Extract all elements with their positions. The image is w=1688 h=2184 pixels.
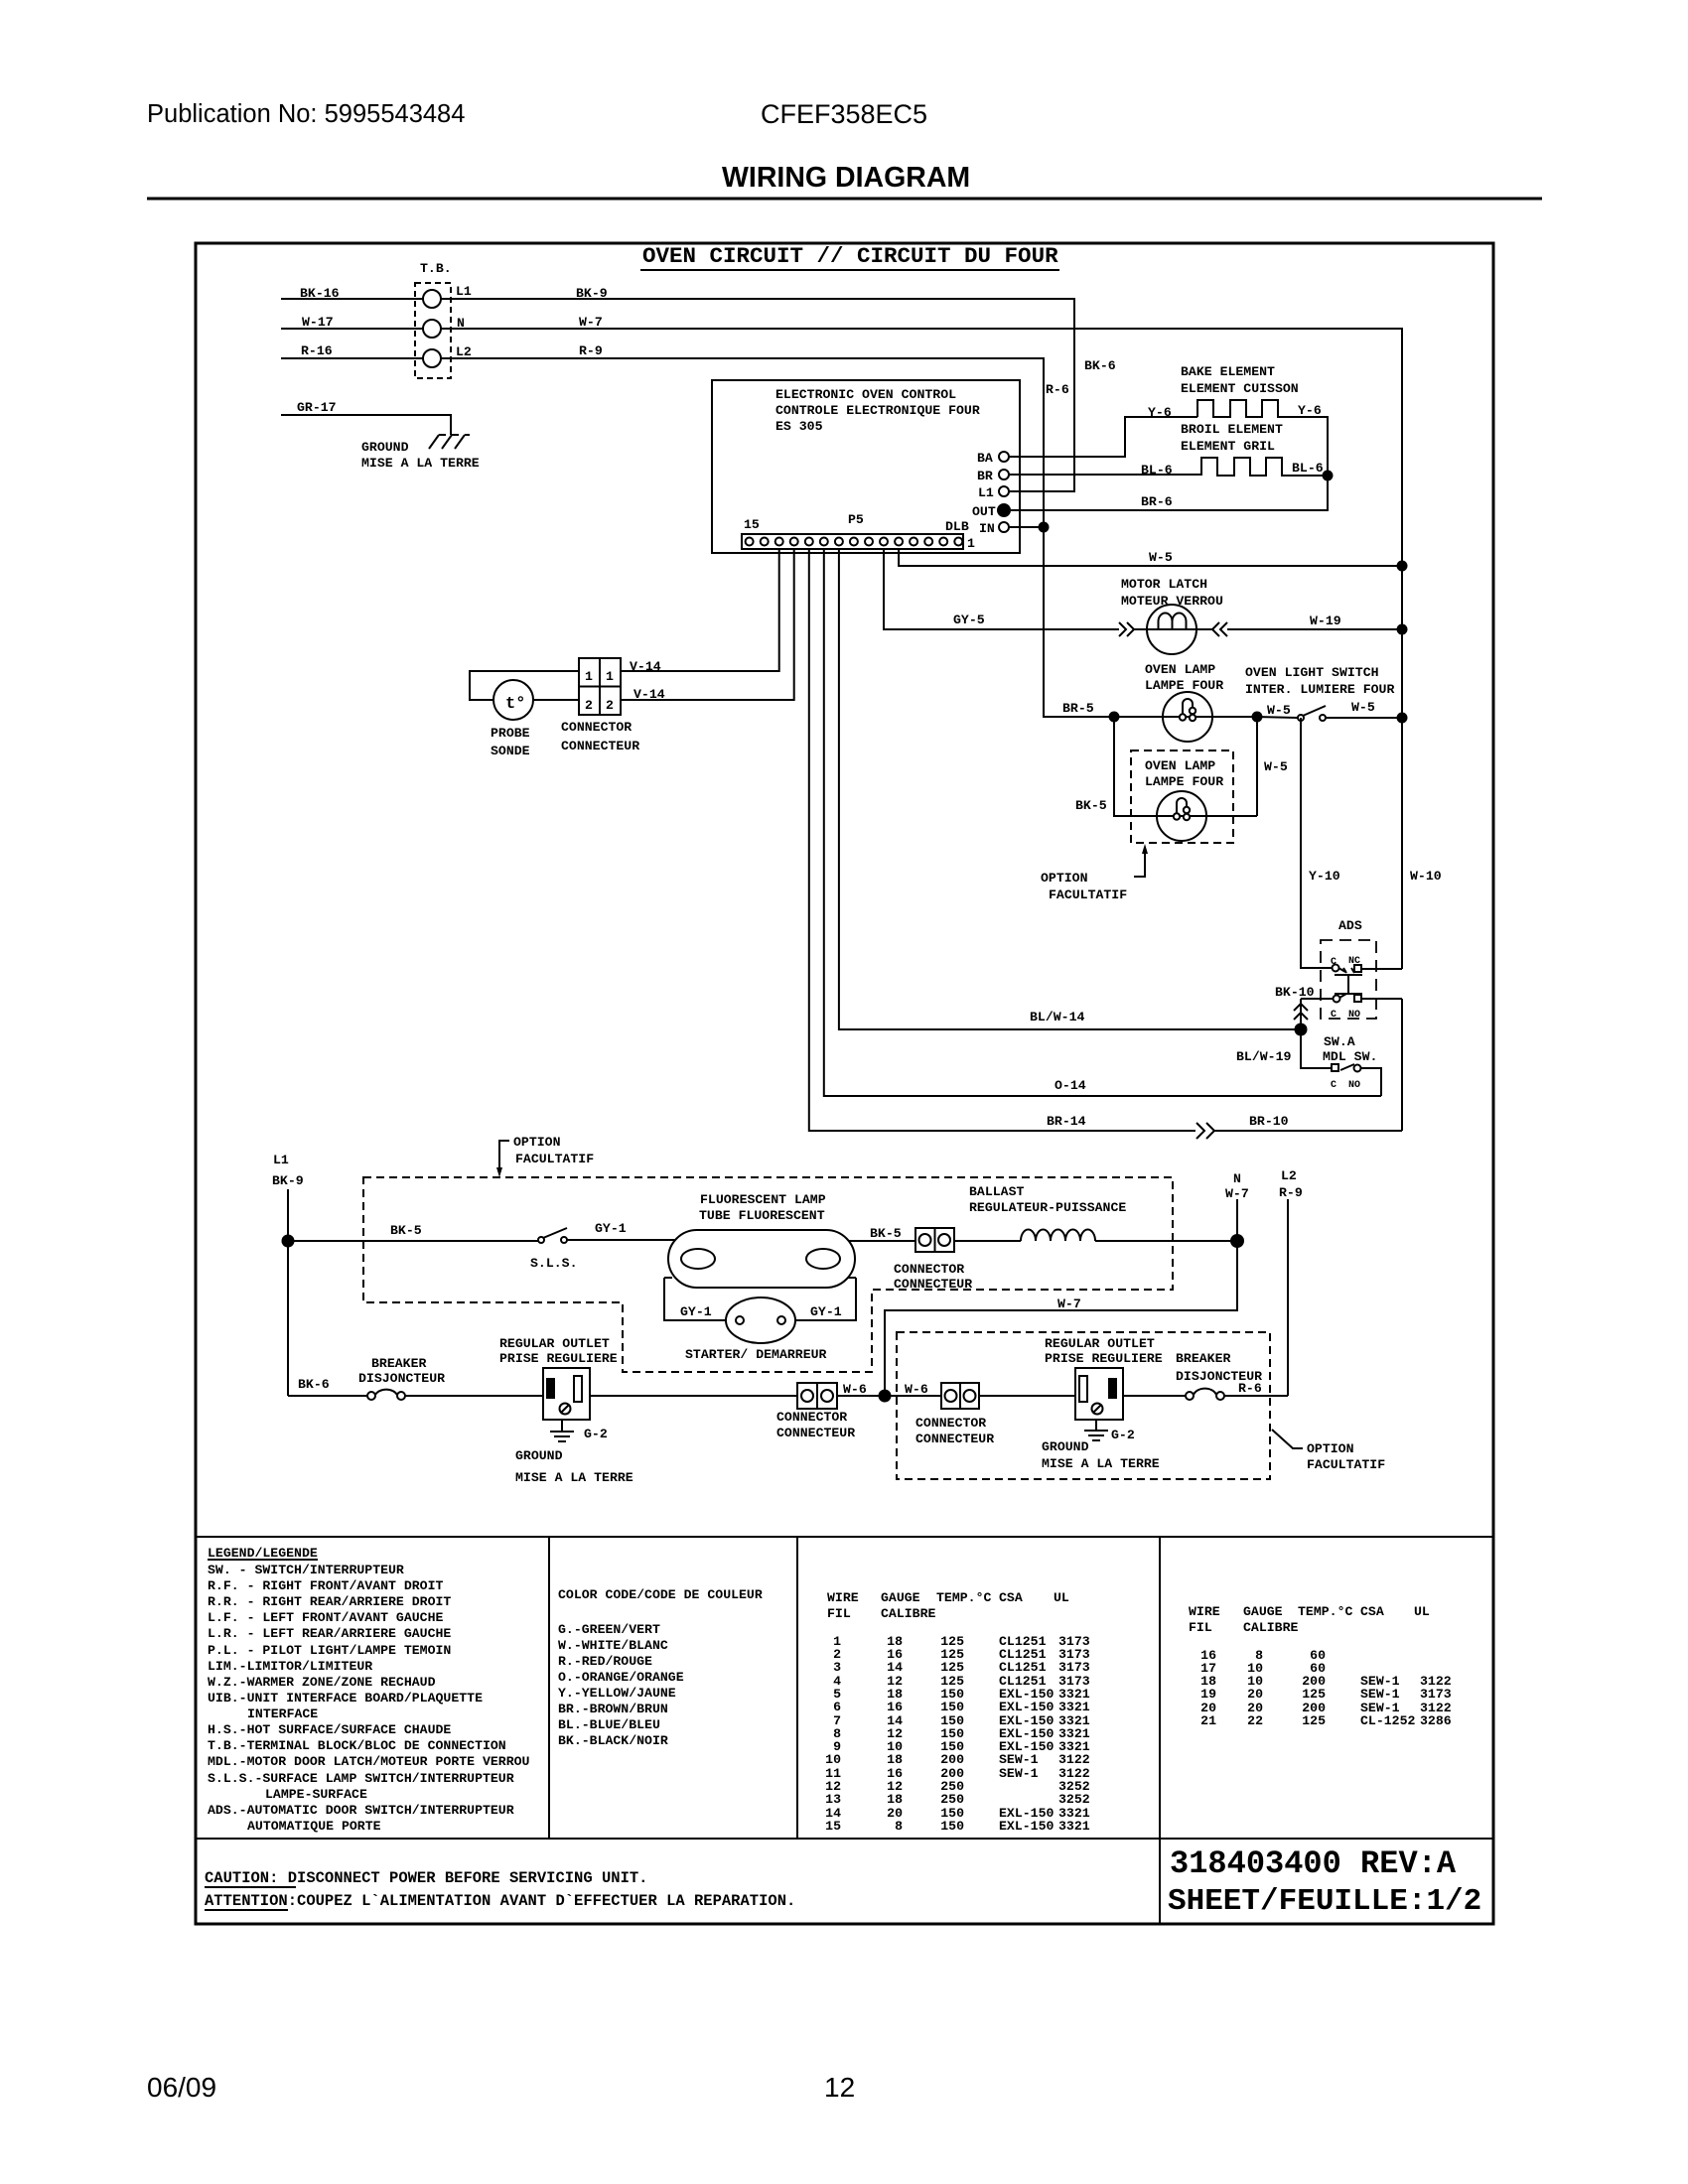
svg-text:BK-5: BK-5 — [390, 1223, 422, 1238]
svg-text:GR-17: GR-17 — [297, 400, 337, 415]
svg-text:C: C — [1331, 957, 1336, 968]
svg-text:CONNECTOR: CONNECTOR — [915, 1416, 986, 1431]
svg-text:CAUTION: DISCONNECT POWER BEFO: CAUTION: DISCONNECT POWER BEFORE SERVICI… — [205, 1869, 647, 1887]
svg-text:R.F. - RIGHT FRONT/AVANT DROIT: R.F. - RIGHT FRONT/AVANT DROIT — [208, 1578, 443, 1593]
legend box lines — [196, 1536, 1493, 1538]
svg-text:OPTION: OPTION — [1041, 871, 1088, 886]
svg-text:BL-6: BL-6 — [1141, 463, 1173, 478]
svg-text:BK-5: BK-5 — [870, 1226, 902, 1241]
svg-text:GROUND: GROUND — [1042, 1439, 1089, 1454]
wire BK-5 to S.L.S. — [288, 1240, 538, 1242]
wire ballast to N junction — [1095, 1240, 1237, 1242]
svg-text:CONNECTOR: CONNECTOR — [894, 1262, 964, 1277]
svg-text:06/09: 06/09 — [147, 2072, 216, 2103]
wire N vertical — [885, 1199, 1237, 1396]
ground symbol (right outlet) — [1084, 1420, 1108, 1440]
svg-text:H.S.-HOT SURFACE/SURFACE CHAUD: H.S.-HOT SURFACE/SURFACE CHAUDE — [208, 1722, 451, 1737]
svg-text:CONNECTEUR: CONNECTEUR — [776, 1426, 855, 1440]
node switch/W-10 junction — [1397, 713, 1408, 724]
svg-text:t°: t° — [505, 695, 525, 714]
svg-text:SW. - SWITCH/INTERRUPTEUR: SW. - SWITCH/INTERRUPTEUR — [208, 1563, 404, 1577]
svg-text:CL1251: CL1251 — [999, 1660, 1047, 1675]
svg-text:15: 15 — [825, 1819, 841, 1834]
svg-text:L2: L2 — [456, 344, 472, 359]
svg-text:FIL: FIL — [1189, 1620, 1212, 1635]
terminal block lug L2 — [423, 349, 441, 367]
wire BR-6 from OUT — [1011, 476, 1328, 510]
svg-text:R-9: R-9 — [579, 343, 603, 358]
svg-text:OUT: OUT — [972, 504, 996, 519]
svg-text:3122: 3122 — [1058, 1752, 1090, 1767]
node W-5 junction — [1397, 561, 1408, 572]
svg-text:W.-WHITE/BLANC: W.-WHITE/BLANC — [558, 1638, 668, 1653]
svg-text:ELEMENT CUISSON: ELEMENT CUISSON — [1181, 381, 1299, 396]
svg-text:W-5: W-5 — [1149, 550, 1173, 565]
svg-text:OPTION: OPTION — [513, 1135, 561, 1150]
wire GY-5 motor latch feed — [884, 549, 1119, 629]
svg-text:21: 21 — [1200, 1713, 1216, 1728]
ADS switch row1 C-NC — [1333, 965, 1339, 972]
connector chevrons left of motor latch — [1119, 622, 1134, 636]
svg-text:WIRING DIAGRAM: WIRING DIAGRAM — [722, 162, 970, 194]
svg-text:BL/W-19: BL/W-19 — [1236, 1049, 1291, 1064]
EOC pin OUT — [997, 503, 1011, 517]
wire L2 vertical — [1287, 1199, 1289, 1396]
wire BK-16 — [281, 298, 423, 300]
svg-text:8: 8 — [895, 1819, 903, 1834]
svg-text:ES 305: ES 305 — [775, 419, 823, 434]
svg-text:LAMPE FOUR: LAMPE FOUR — [1145, 678, 1223, 693]
main border frame — [196, 243, 1493, 1924]
svg-text:NO: NO — [1348, 1080, 1360, 1091]
svg-text:R.-RED/ROUGE: R.-RED/ROUGE — [558, 1654, 652, 1669]
svg-text:GY-1: GY-1 — [595, 1221, 627, 1236]
svg-text:STARTER/ DEMARREUR: STARTER/ DEMARREUR — [685, 1347, 827, 1362]
svg-text:FACULTATIF: FACULTATIF — [1049, 887, 1127, 902]
svg-text:SEW-1: SEW-1 — [999, 1752, 1039, 1767]
svg-text:318403400 REV:A: 318403400 REV:A — [1170, 1845, 1457, 1882]
svg-text:V-14: V-14 — [630, 659, 661, 674]
wire W-7 from T.B. to right bus — [441, 329, 1402, 969]
node BK junction — [282, 1235, 295, 1248]
svg-text:GAUGE: GAUGE — [1243, 1604, 1283, 1619]
wire W-5 from strip pin to right bus — [899, 549, 1402, 566]
svg-text:BL-6: BL-6 — [1292, 461, 1324, 476]
electronic oven control U1 box — [712, 380, 1020, 553]
EOC pin BA — [999, 452, 1009, 462]
svg-text:G.-GREEN/VERT: G.-GREEN/VERT — [558, 1622, 660, 1637]
svg-text:R.R. - RIGHT REAR/ARRIERE DROI: R.R. - RIGHT REAR/ARRIERE DROIT — [208, 1594, 451, 1609]
svg-text:BK-10: BK-10 — [1275, 985, 1315, 1000]
legend text — [208, 1546, 530, 1834]
svg-text:150: 150 — [940, 1819, 964, 1834]
svg-text:MDL SW.: MDL SW. — [1323, 1049, 1377, 1064]
svg-text:CSA: CSA — [1360, 1604, 1384, 1619]
svg-text:LEGEND/LEGENDE: LEGEND/LEGENDE — [208, 1546, 318, 1561]
wire BK-6 to breaker — [288, 1395, 368, 1397]
node W-6 junction — [837, 1395, 941, 1397]
wire L1/BK-9 vertical — [287, 1189, 289, 1396]
svg-text:R-6: R-6 — [1238, 1381, 1262, 1396]
wire outlet to connector W-6 — [590, 1395, 797, 1397]
svg-text:N: N — [1233, 1171, 1241, 1186]
svg-text:PROBE: PROBE — [491, 726, 530, 741]
wire BR-10 up to ADS NO — [1401, 999, 1403, 1131]
svg-text:3321: 3321 — [1058, 1819, 1090, 1834]
svg-text:ATTENTION:COUPEZ L`ALIMENTATIO: ATTENTION:COUPEZ L`ALIMENTATION AVANT D`… — [205, 1892, 795, 1910]
svg-text:BR-5: BR-5 — [1062, 701, 1094, 716]
svg-text:13: 13 — [825, 1792, 841, 1807]
option facultatif pointer (lamp) — [1134, 850, 1145, 877]
svg-text:3321: 3321 — [1058, 1700, 1090, 1714]
svg-text:BK-6: BK-6 — [298, 1377, 330, 1392]
wire BL/W-14 — [839, 549, 1301, 1029]
svg-text:MDL.-MOTOR DOOR LATCH/MOTEUR P: MDL.-MOTOR DOOR LATCH/MOTEUR PORTE VERRO… — [208, 1754, 530, 1769]
header rule — [147, 198, 1542, 201]
bake element — [1197, 400, 1328, 471]
svg-text:S.L.S.-SURFACE LAMP SWITCH/INT: S.L.S.-SURFACE LAMP SWITCH/INTERRUPTEUR — [208, 1771, 514, 1786]
svg-text:GAUGE: GAUGE — [881, 1590, 920, 1605]
svg-text:G-2: G-2 — [1111, 1428, 1135, 1442]
svg-text:125: 125 — [1302, 1687, 1326, 1702]
svg-text:BREAKER: BREAKER — [371, 1356, 426, 1371]
svg-text:L.F. - LEFT FRONT/AVANT GAUCHE: L.F. - LEFT FRONT/AVANT GAUCHE — [208, 1610, 443, 1625]
option facultatif pointer (outlet) — [1272, 1430, 1303, 1448]
svg-text:BK-9: BK-9 — [576, 286, 608, 301]
svg-text:125: 125 — [940, 1660, 964, 1675]
svg-text:REGULAR OUTLET: REGULAR OUTLET — [1045, 1336, 1155, 1351]
svg-text:BR-10: BR-10 — [1249, 1114, 1289, 1129]
svg-text:PRISE REGULIERE: PRISE REGULIERE — [499, 1351, 618, 1366]
svg-text:MISE A LA TERRE: MISE A LA TERRE — [515, 1470, 633, 1485]
svg-text:L1: L1 — [273, 1153, 289, 1167]
svg-text:3286: 3286 — [1420, 1713, 1452, 1728]
svg-text:18: 18 — [887, 1752, 903, 1767]
svg-text:GROUND: GROUND — [361, 440, 409, 455]
svg-text:MISE A LA TERRE: MISE A LA TERRE — [1042, 1456, 1160, 1471]
connector chevrons BK-10 — [1294, 1004, 1308, 1020]
svg-text:V-14: V-14 — [633, 687, 665, 702]
svg-text:W-6: W-6 — [905, 1382, 928, 1397]
svg-text:L2: L2 — [1281, 1168, 1297, 1183]
svg-text:P.L. - PILOT LIGHT/LAMPE TEMOI: P.L. - PILOT LIGHT/LAMPE TEMOIN — [208, 1643, 451, 1658]
svg-text:1: 1 — [606, 669, 614, 684]
fluorescent tube — [668, 1230, 855, 1288]
wire W-17 — [281, 328, 423, 330]
wire BK-5 down to optional lamp — [1114, 717, 1257, 816]
node BL/W junction — [1295, 1024, 1308, 1036]
svg-text:REGULAR OUTLET: REGULAR OUTLET — [499, 1336, 610, 1351]
ground symbol (left outlet) — [550, 1420, 574, 1441]
probe connector box — [579, 658, 621, 715]
svg-text:LIM.-LIMITOR/LIMITEUR: LIM.-LIMITOR/LIMITEUR — [208, 1659, 372, 1674]
svg-text:S.L.S.: S.L.S. — [530, 1256, 577, 1271]
svg-text:BR-6: BR-6 — [1141, 494, 1173, 509]
svg-text:P5: P5 — [848, 512, 864, 527]
svg-text:INTER. LUMIERE FOUR: INTER. LUMIERE FOUR — [1245, 682, 1394, 697]
svg-text:CONNECTEUR: CONNECTEUR — [894, 1277, 972, 1292]
svg-text:BK.-BLACK/NOIR: BK.-BLACK/NOIR — [558, 1733, 668, 1748]
tube holder rectangle — [664, 1278, 856, 1320]
svg-text:CFEF358EC5: CFEF358EC5 — [761, 99, 927, 129]
svg-text:BR-14: BR-14 — [1047, 1114, 1086, 1129]
wire from MDL NO to O-14 — [1361, 1068, 1381, 1096]
svg-text:GY-1: GY-1 — [810, 1304, 842, 1319]
ballast inductor — [1021, 1230, 1095, 1242]
svg-text:CONNECTOR: CONNECTOR — [776, 1410, 847, 1425]
wire IN to R-6 bus — [1009, 526, 1044, 528]
svg-text:BK-16: BK-16 — [300, 286, 340, 301]
svg-text:W-5: W-5 — [1264, 759, 1288, 774]
probe circle — [493, 680, 533, 720]
svg-text:SW.A: SW.A — [1324, 1034, 1355, 1049]
svg-text:1: 1 — [585, 669, 593, 684]
node W-19 junction — [1397, 624, 1408, 635]
svg-text:CONTROLE ELECTRONIQUE FOUR: CONTROLE ELECTRONIQUE FOUR — [775, 403, 980, 418]
option dashed polygon (fluorescent lamp) — [363, 1177, 1173, 1372]
wire R-16 — [281, 357, 423, 359]
svg-text:CONNECTOR: CONNECTOR — [561, 720, 632, 735]
wire gauge table 2 — [1189, 1604, 1430, 1635]
svg-text:Y-6: Y-6 — [1148, 405, 1172, 420]
svg-text:2: 2 — [606, 698, 614, 713]
oven lamp 2 (optional) — [1157, 791, 1206, 841]
wire BK-5 tube to ballast connector — [849, 1240, 915, 1242]
svg-text:INTERFACE: INTERFACE — [247, 1706, 318, 1721]
svg-text:OPTION: OPTION — [1307, 1441, 1354, 1456]
wire V-14 row2 — [621, 549, 794, 700]
svg-text:UIB.-UNIT INTERFACE BOARD/PLAQ: UIB.-UNIT INTERFACE BOARD/PLAQUETTE — [208, 1691, 483, 1706]
svg-text:UL: UL — [1054, 1590, 1069, 1605]
svg-text:15: 15 — [744, 517, 760, 532]
svg-text:W-5: W-5 — [1267, 703, 1291, 718]
svg-text:EXL-150: EXL-150 — [999, 1700, 1054, 1714]
svg-text:BREAKER: BREAKER — [1176, 1351, 1230, 1366]
svg-text:Publication No: 5995543484: Publication No: 5995543484 — [147, 100, 465, 128]
svg-text:AUTOMATIQUE PORTE: AUTOMATIQUE PORTE — [247, 1819, 381, 1834]
svg-text:BK-5: BK-5 — [1075, 798, 1107, 813]
wire gauge table 1 — [827, 1590, 1069, 1621]
svg-text:W-10: W-10 — [1410, 869, 1442, 884]
svg-text:CALIBRE: CALIBRE — [881, 1606, 935, 1621]
terminal block lug L1 — [423, 290, 441, 308]
wire GY-1 to tube — [567, 1239, 675, 1241]
svg-text:C: C — [1331, 1080, 1336, 1091]
wire BA to bake element — [1009, 417, 1197, 457]
svg-text:FACULTATIF: FACULTATIF — [1307, 1457, 1385, 1472]
node N junction — [1230, 1234, 1244, 1248]
svg-text:NO: NO — [1348, 1010, 1360, 1021]
svg-text:3173: 3173 — [1058, 1660, 1090, 1675]
svg-text:BALLAST: BALLAST — [969, 1184, 1024, 1199]
option facultatif pointer (fluorescent) — [499, 1141, 509, 1171]
svg-text:BK-6: BK-6 — [1084, 358, 1116, 373]
svg-text:FIL: FIL — [827, 1606, 851, 1621]
svg-text:22: 22 — [1247, 1713, 1263, 1728]
svg-text:250: 250 — [940, 1792, 964, 1807]
svg-text:W-7: W-7 — [579, 315, 603, 330]
wire to right outlet — [979, 1395, 1075, 1397]
svg-text:MOTOR LATCH: MOTOR LATCH — [1121, 577, 1207, 592]
svg-text:BK-9: BK-9 — [272, 1173, 304, 1188]
svg-text:WIRE: WIRE — [1189, 1604, 1220, 1619]
starter — [726, 1297, 795, 1343]
svg-text:CALIBRE: CALIBRE — [1243, 1620, 1298, 1635]
svg-text:CONNECTEUR: CONNECTEUR — [915, 1432, 994, 1446]
ADS dashed box — [1321, 940, 1376, 1019]
svg-text:MISE A LA TERRE: MISE A LA TERRE — [361, 456, 480, 471]
svg-text:R-9: R-9 — [1279, 1185, 1303, 1200]
svg-text:CSA: CSA — [999, 1590, 1023, 1605]
svg-text:LAMPE-SURFACE: LAMPE-SURFACE — [265, 1787, 367, 1802]
svg-text:3173: 3173 — [1420, 1687, 1452, 1702]
svg-text:O-14: O-14 — [1055, 1078, 1086, 1093]
svg-text:OVEN LAMP: OVEN LAMP — [1145, 758, 1215, 773]
svg-text:10: 10 — [825, 1752, 841, 1767]
svg-text:UL: UL — [1414, 1604, 1430, 1619]
surface lamp switch S.L.S. — [538, 1237, 544, 1243]
svg-text:14: 14 — [887, 1660, 903, 1675]
svg-text:ELECTRONIC OVEN CONTROL: ELECTRONIC OVEN CONTROL — [775, 387, 956, 402]
svg-text:GY-5: GY-5 — [953, 613, 985, 627]
node IN junction — [1039, 522, 1050, 533]
svg-text:W-6: W-6 — [843, 1382, 867, 1397]
svg-text:W-19: W-19 — [1310, 614, 1341, 628]
svg-text:WIRE: WIRE — [827, 1590, 859, 1605]
EOC pin BR — [999, 470, 1009, 479]
svg-text:CL-1252: CL-1252 — [1360, 1713, 1415, 1728]
svg-text:BAKE ELEMENT: BAKE ELEMENT — [1181, 364, 1275, 379]
svg-text:16: 16 — [887, 1700, 903, 1714]
svg-text:W-7: W-7 — [1057, 1297, 1081, 1311]
wire GR-17 — [281, 415, 451, 435]
svg-text:TEMP.°C: TEMP.°C — [1298, 1604, 1352, 1619]
svg-text:DLB: DLB — [945, 519, 969, 534]
option dashed box (outlet) — [897, 1332, 1270, 1479]
svg-text:O.-ORANGE/ORANGE: O.-ORANGE/ORANGE — [558, 1670, 684, 1685]
svg-text:BL.-BLUE/BLEU: BL.-BLUE/BLEU — [558, 1717, 660, 1732]
svg-text:125: 125 — [1302, 1713, 1326, 1728]
EOC P5 terminal strip — [742, 534, 963, 549]
svg-text:2: 2 — [585, 698, 593, 713]
wire BK-9 from T.B. to EOC L1 pin — [441, 299, 1074, 491]
broil element — [1201, 458, 1323, 476]
svg-text:REGULATEUR-PUISSANCE: REGULATEUR-PUISSANCE — [969, 1200, 1126, 1215]
svg-text:IN: IN — [979, 521, 995, 536]
svg-text:FACULTATIF: FACULTATIF — [515, 1152, 594, 1166]
svg-text:ADS.-AUTOMATIC DOOR SWITCH/INT: ADS.-AUTOMATIC DOOR SWITCH/INTERRUPTEUR — [208, 1803, 514, 1818]
svg-text:SHEET/FEUILLE:1/2: SHEET/FEUILLE:1/2 — [1168, 1884, 1481, 1919]
svg-text:3252: 3252 — [1058, 1792, 1090, 1807]
wire Y-10 from switch to ADS — [1301, 718, 1332, 968]
wire V-14 row1 — [621, 549, 779, 671]
svg-text:R-6: R-6 — [1046, 382, 1069, 397]
svg-text:200: 200 — [940, 1752, 964, 1767]
svg-text:TUBE FLUORESCENT: TUBE FLUORESCENT — [699, 1208, 825, 1223]
svg-text:FLUORESCENT LAMP: FLUORESCENT LAMP — [700, 1192, 826, 1207]
wire BR to broil element — [1009, 474, 1201, 476]
svg-text:SEW-1: SEW-1 — [1360, 1687, 1400, 1702]
svg-text:BR: BR — [977, 469, 993, 483]
connector W-6 (left) — [797, 1383, 837, 1409]
svg-text:GY-1: GY-1 — [680, 1304, 712, 1319]
svg-text:OVEN LAMP: OVEN LAMP — [1145, 662, 1215, 677]
svg-text:Y-10: Y-10 — [1309, 869, 1340, 884]
svg-text:12: 12 — [824, 2072, 855, 2103]
color code text — [558, 1587, 763, 1748]
svg-text:BL/W-14: BL/W-14 — [1030, 1010, 1084, 1024]
svg-text:19: 19 — [1200, 1687, 1216, 1702]
svg-text:ADS: ADS — [1338, 918, 1362, 933]
svg-text:W.Z.-WARMER ZONE/ZONE RECHAUD: W.Z.-WARMER ZONE/ZONE RECHAUD — [208, 1675, 436, 1690]
ADS switch row2 C-NO — [1334, 996, 1340, 1003]
svg-text:SONDE: SONDE — [491, 744, 530, 758]
svg-text:T.B.: T.B. — [420, 261, 452, 276]
motor latch coil — [1134, 628, 1212, 630]
svg-text:CONNECTEUR: CONNECTEUR — [561, 739, 639, 753]
svg-text:BR.-BROWN/BRUN: BR.-BROWN/BRUN — [558, 1702, 668, 1716]
svg-text:MOTEUR VERROU: MOTEUR VERROU — [1121, 594, 1223, 609]
svg-text:OVEN CIRCUIT // CIRCUIT DU FOU: OVEN CIRCUIT // CIRCUIT DU FOUR — [642, 243, 1058, 269]
wire O-14 — [824, 549, 1381, 1096]
svg-text:1: 1 — [967, 536, 975, 551]
wire BL/W-19 down to MDL switch — [1301, 1029, 1332, 1068]
ballast connector — [915, 1228, 954, 1252]
node junction bake/broil/BR-6 — [1323, 471, 1334, 481]
svg-text:ELEMENT GRIL: ELEMENT GRIL — [1181, 439, 1275, 454]
svg-text:DISJONCTEUR: DISJONCTEUR — [358, 1371, 445, 1386]
node lamp/switch junction — [1252, 712, 1263, 723]
EOC pin IN — [999, 522, 1009, 532]
svg-text:Y.-YELLOW/JAUNE: Y.-YELLOW/JAUNE — [558, 1686, 676, 1701]
chassis ground symbol — [429, 435, 470, 449]
svg-text:20: 20 — [1247, 1687, 1263, 1702]
EOC pin L1 — [999, 486, 1009, 496]
svg-text:PRISE REGULIERE: PRISE REGULIERE — [1045, 1351, 1163, 1366]
svg-text:R-16: R-16 — [301, 343, 333, 358]
svg-text:NC: NC — [1348, 956, 1360, 967]
svg-text:OVEN LIGHT SWITCH: OVEN LIGHT SWITCH — [1245, 665, 1379, 680]
svg-text:3: 3 — [833, 1660, 841, 1675]
svg-text:L1: L1 — [978, 485, 994, 500]
ADS mechanical link — [1335, 975, 1362, 994]
svg-text:W-5: W-5 — [1351, 700, 1375, 715]
svg-text:18: 18 — [887, 1792, 903, 1807]
svg-text:G-2: G-2 — [584, 1427, 608, 1441]
svg-text:W-17: W-17 — [302, 315, 334, 330]
svg-text:L1: L1 — [456, 284, 472, 299]
connector chevrons right of motor latch — [1212, 622, 1227, 636]
svg-text:C: C — [1331, 1010, 1336, 1021]
wire W-5 right side of optional lamp — [1256, 717, 1258, 816]
svg-text:T.B.-TERMINAL BLOCK/BLOC DE CO: T.B.-TERMINAL BLOCK/BLOC DE CONNECTION — [208, 1738, 506, 1753]
terminal block T.B. dashed box — [415, 283, 451, 378]
svg-text:TEMP.°C: TEMP.°C — [936, 1590, 991, 1605]
svg-text:L.R. - LEFT REAR/ARRIERE GAUCH: L.R. - LEFT REAR/ARRIERE GAUCHE — [208, 1626, 451, 1641]
svg-text:LAMPE FOUR: LAMPE FOUR — [1145, 774, 1223, 789]
svg-text:6: 6 — [833, 1700, 841, 1714]
svg-text:SEW-1: SEW-1 — [999, 1766, 1039, 1781]
svg-text:EXL-150: EXL-150 — [999, 1819, 1054, 1834]
svg-text:COLOR CODE/CODE DE COULEUR: COLOR CODE/CODE DE COULEUR — [558, 1587, 763, 1602]
terminal block lug N — [423, 320, 441, 338]
wire R-9 / R-6 from T.B. down to IN junction and BR-5 row — [441, 358, 1114, 717]
connector chevrons BR wire — [1196, 1123, 1214, 1139]
svg-text:150: 150 — [940, 1700, 964, 1714]
optional oven lamp dashed box — [1131, 751, 1233, 843]
svg-text:BROIL ELEMENT: BROIL ELEMENT — [1181, 422, 1283, 437]
svg-text:BA: BA — [977, 451, 993, 466]
